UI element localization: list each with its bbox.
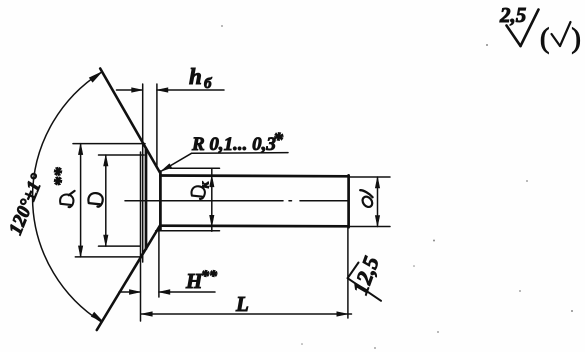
dimension D1 line (80, 144, 82, 257)
svg-text:): ) (572, 24, 581, 55)
dimension L line (141, 313, 351, 315)
arrowhead D1 top (78, 144, 82, 155)
roughness mark 12,5 short leg (348, 263, 359, 279)
centerline dash right (300, 200, 349, 202)
arrowhead D bottom (104, 235, 108, 246)
witness Dk bottom (156, 230, 220, 232)
dimension h: right tail (157, 89, 224, 91)
label D1 (cursive D glyph) (60, 194, 73, 207)
scan speckles (221, 25, 573, 349)
svg-text:L: L (235, 292, 249, 316)
label D (cursive D glyph) (88, 193, 102, 207)
arrowhead arc bottom (92, 313, 102, 321)
dimension Dk line (211, 168, 213, 231)
svg-text:**: ** (51, 167, 72, 187)
shank bottom line (160, 224, 348, 227)
svg-text:(: ( (540, 24, 549, 55)
svg-text:120°±1°: 120°±1° (5, 171, 48, 238)
arrowhead D top (104, 155, 108, 166)
witness D top (99, 154, 145, 156)
shank top line (160, 174, 348, 178)
roughness symbol 2,5 check left leg (507, 26, 521, 47)
dimension H: left tail (119, 291, 140, 293)
arrowhead Dk top (210, 176, 214, 187)
svg-text:12,5: 12,5 (347, 253, 384, 298)
small check right leg (560, 22, 571, 46)
extension line right C (h) (156, 84, 158, 167)
arrowhead H left (129, 290, 140, 295)
witness D1 bottom (75, 256, 142, 258)
leader line to fillet (162, 153, 192, 170)
label Dk (cursive D glyph) (191, 186, 204, 199)
roughness symbol 2,5 check right leg (521, 10, 539, 47)
centerline dash (125, 200, 283, 202)
arrowhead Dk bottom (210, 215, 214, 226)
svg-text:к: к (197, 181, 212, 188)
extension line left A (H,L) (140, 152, 142, 321)
arrowhead H right (159, 290, 170, 295)
roughness mark 12,5 long leg (348, 278, 381, 301)
witness Dk top (170, 167, 220, 169)
arrowhead d bottom (375, 216, 379, 227)
centerline dot (289, 200, 292, 202)
cone slant top (head edge + construction line) (100, 69, 160, 173)
witness d top (349, 176, 390, 178)
extension line left B (h) (142, 84, 144, 262)
small check left leg (552, 34, 561, 46)
svg-text:2,5: 2,5 (499, 3, 526, 27)
dimension H: right tail (159, 291, 215, 293)
dimension arc 120deg (33, 73, 102, 323)
head junction vertical (159, 172, 162, 231)
witness D bottom (99, 245, 141, 247)
svg-text:h: h (189, 64, 202, 89)
extension line shank end (L,12.5) (347, 227, 349, 318)
svg-text:R 0,1... 0,3: R 0,1... 0,3 (191, 134, 276, 155)
arrowhead leader (161, 164, 172, 172)
head face line (145, 149, 148, 249)
witness d bottom (349, 226, 390, 228)
svg-text:б: б (204, 76, 212, 92)
svg-text:**: ** (201, 268, 218, 285)
label d (cursive bowl) (361, 195, 375, 209)
dimension D line (105, 155, 107, 246)
leader R0,1...0,3 underline (192, 152, 289, 155)
arrowhead h right (157, 88, 168, 92)
arrowhead arc top (90, 73, 101, 82)
arrowhead D1 bottom (78, 246, 82, 257)
label D1 subscript 1 (69, 191, 75, 195)
cone slant bottom (head edge + construction line) (97, 226, 160, 331)
extension line right D (H) (158, 229, 160, 297)
arrowhead d top (375, 177, 379, 188)
witness D1 top (73, 143, 145, 145)
shank end face (347, 175, 350, 227)
label d (ascender flick) (360, 190, 372, 197)
arrowhead L left (141, 312, 152, 316)
arrowhead h left (132, 88, 143, 92)
arrowhead L right (337, 312, 348, 316)
dimension h: left tail (117, 89, 143, 91)
dimension d line (377, 177, 379, 227)
svg-text:*: * (273, 129, 284, 151)
